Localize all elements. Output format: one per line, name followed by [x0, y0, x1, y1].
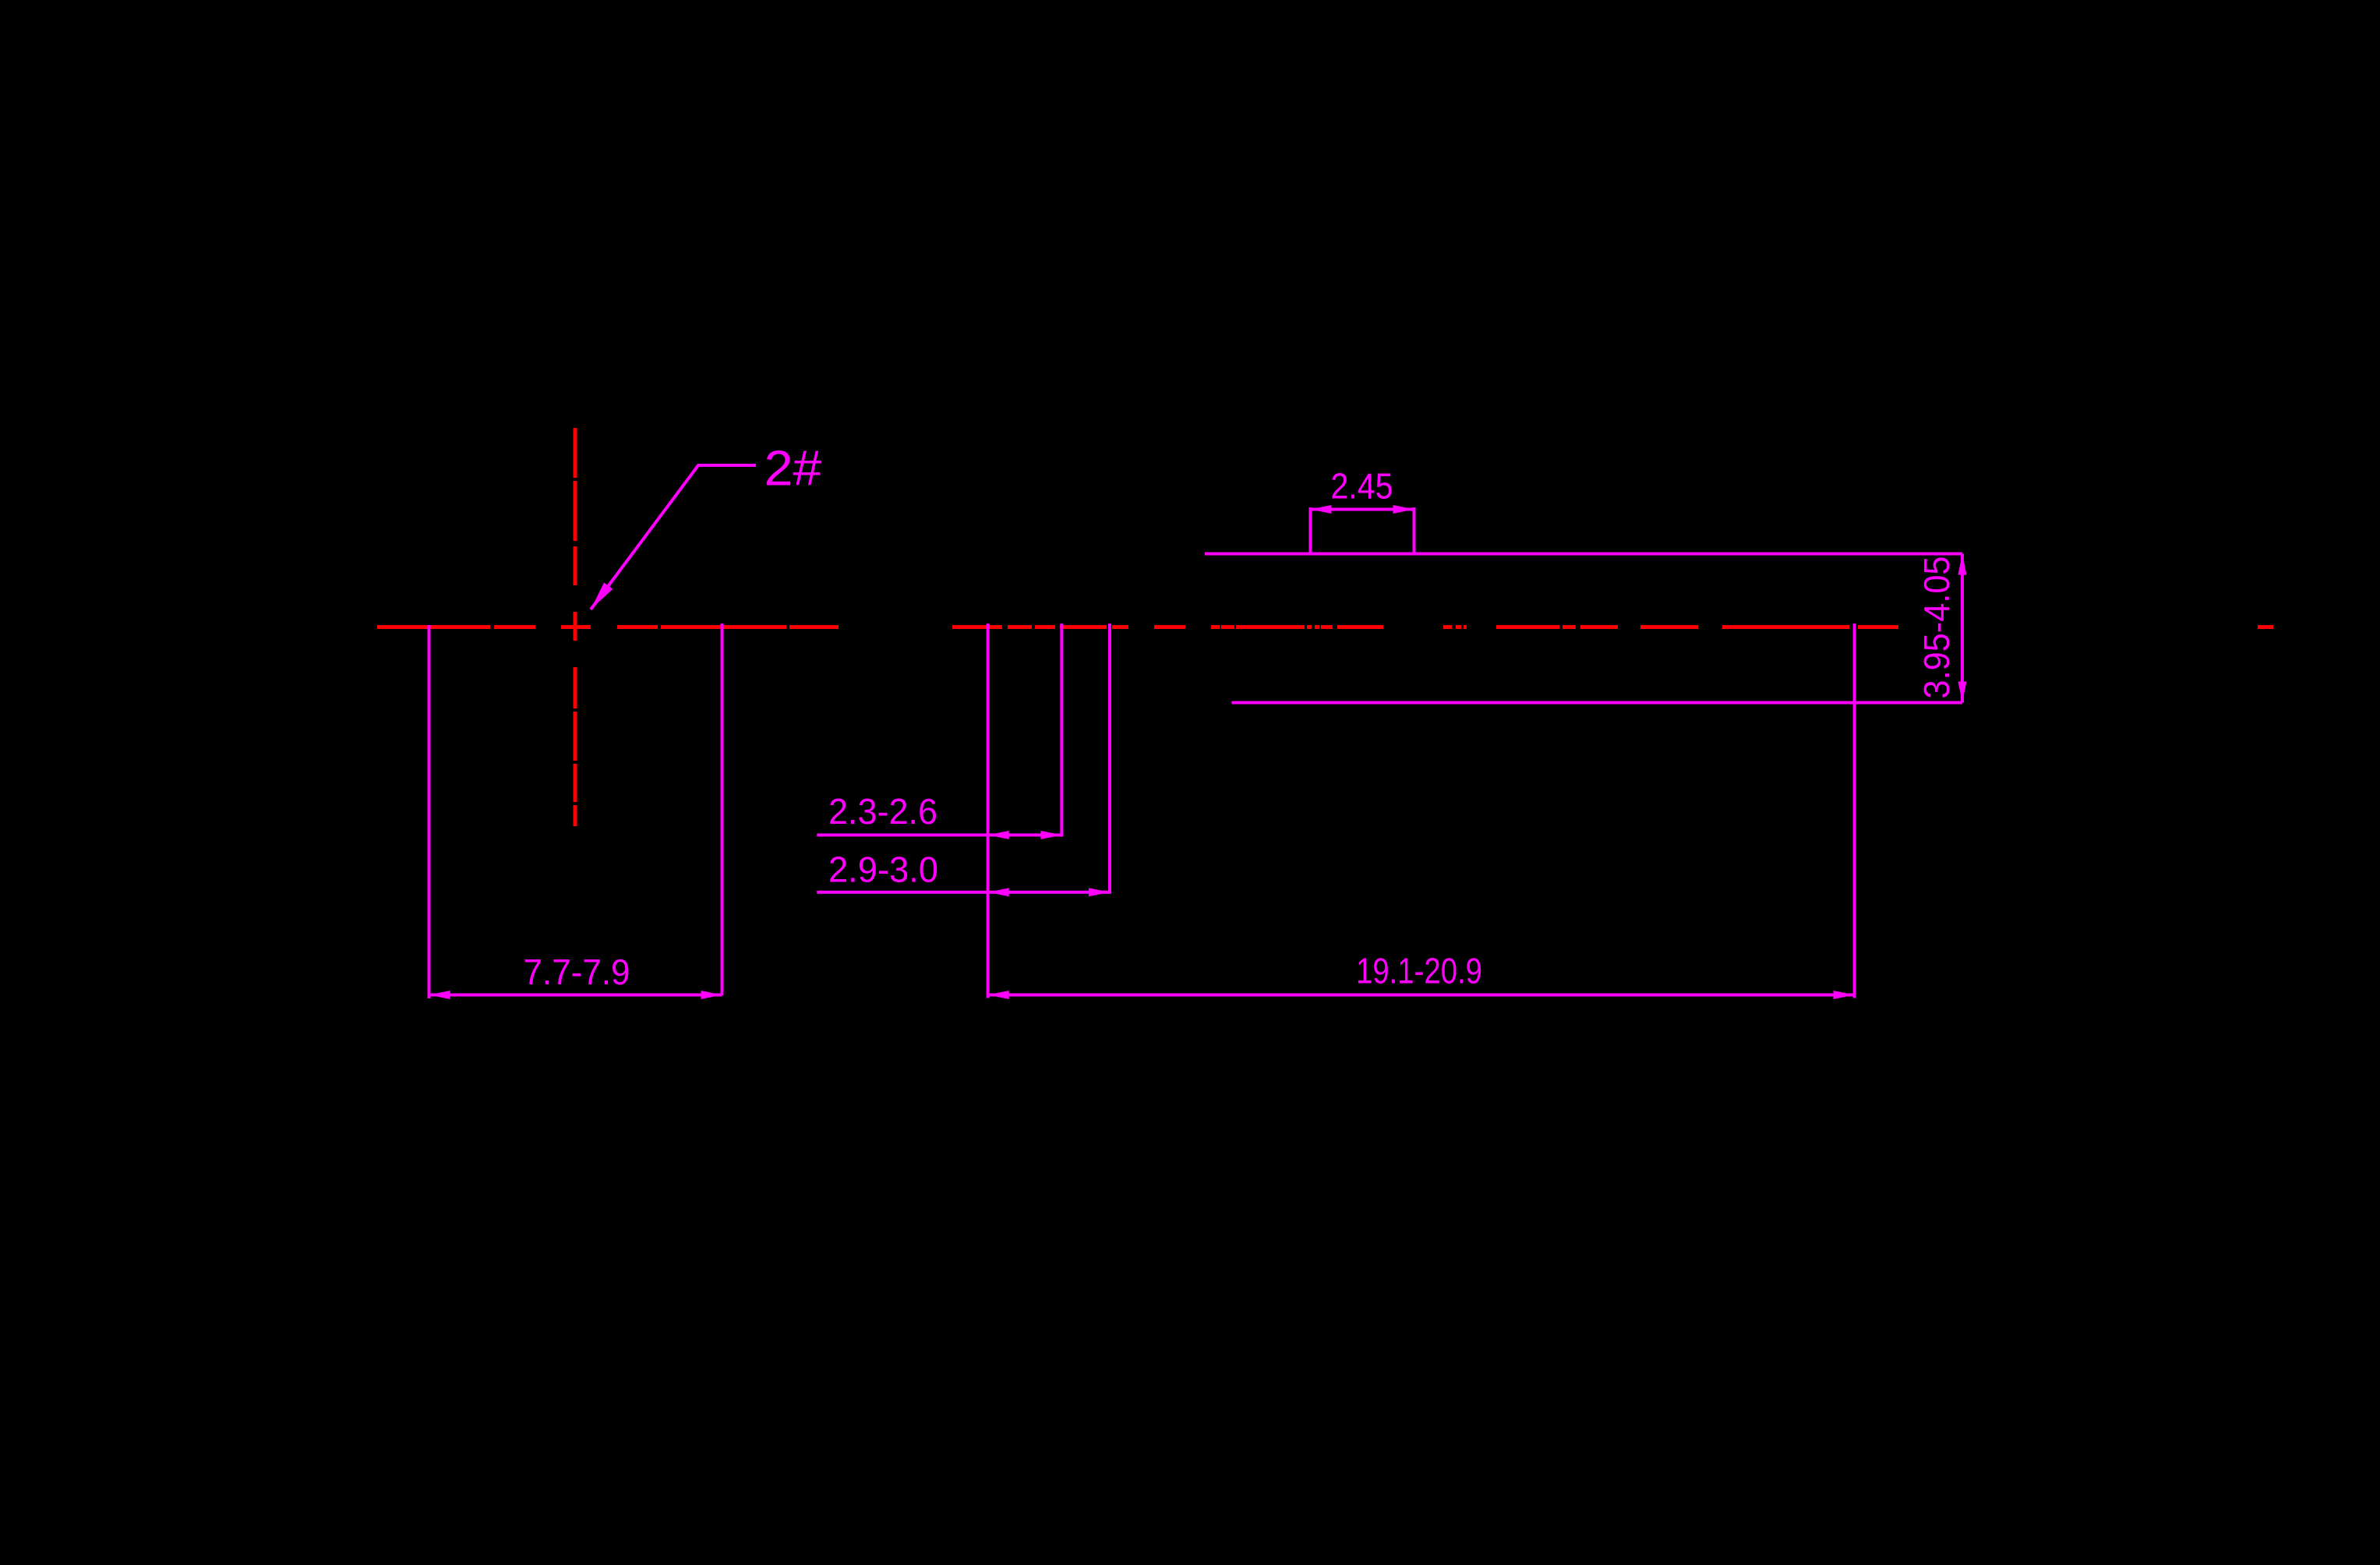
dimension line 2.45	[1311, 508, 1414, 511]
svg-text:7.7-7.9: 7.7-7.9	[524, 952, 630, 992]
dimension line 7.7-7.9	[429, 994, 722, 997]
arrowhead 3.95-4.05 top	[1958, 554, 1967, 575]
extension line left (7.7-7.9)	[428, 625, 431, 998]
centerline vertical (left view)	[574, 428, 577, 826]
extension line B (x=1362.4)	[1060, 624, 1063, 837]
dimension line 3.95-4.05 (vertical)	[1961, 554, 1964, 703]
arrowhead 2.3-2.6 right	[1040, 831, 1061, 839]
extension line C (x=1424)	[1108, 624, 1111, 894]
svg-text:2.9-3.0: 2.9-3.0	[828, 850, 938, 890]
svg-text:3.95-4.05: 3.95-4.05	[1916, 556, 1957, 699]
svg-text:2.3-2.6: 2.3-2.6	[828, 791, 938, 832]
extension line A (pin end, x=1267.6)	[987, 624, 990, 998]
extension line right (2.45)	[1413, 507, 1416, 553]
outline bottom edge (side view)	[1232, 701, 1963, 705]
arrowhead 2.45 right	[1393, 505, 1414, 514]
svg-text:19.1-20.9: 19.1-20.9	[1356, 951, 1482, 991]
arrowhead 2.45 left	[1311, 505, 1332, 514]
dimension line 2.9-3.0	[817, 891, 1110, 894]
leader arrowhead 2#	[586, 582, 613, 613]
dimension line 2.3-2.6	[817, 833, 1061, 836]
centerline horizontal (left view)	[377, 625, 839, 629]
arrowhead 7.7-7.9 left	[429, 991, 450, 999]
extension line left (2.45)	[1309, 507, 1312, 553]
arrowhead 19.1-20.9 left	[988, 991, 1009, 999]
outline top edge (side view)	[1205, 553, 1962, 556]
svg-text:2.45: 2.45	[1331, 466, 1393, 507]
centerline horizontal (right view)	[952, 625, 2273, 629]
extension line right (19.1-20.9)	[1853, 624, 1856, 998]
arrowhead 2.9-3.0 right	[1089, 888, 1110, 896]
leader line 2#	[591, 465, 756, 609]
arrowhead 2.9-3.0 left	[988, 888, 1009, 896]
arrowhead 19.1-20.9 right	[1834, 991, 1855, 999]
svg-text:2#: 2#	[764, 440, 822, 496]
dimension line 19.1-20.9	[988, 994, 1855, 997]
extension line right (7.7-7.9)	[721, 624, 724, 995]
arrowhead 2.3-2.6 left	[988, 831, 1009, 839]
arrowhead 7.7-7.9 right	[701, 991, 722, 999]
arrowhead 3.95-4.05 bottom	[1958, 682, 1967, 703]
